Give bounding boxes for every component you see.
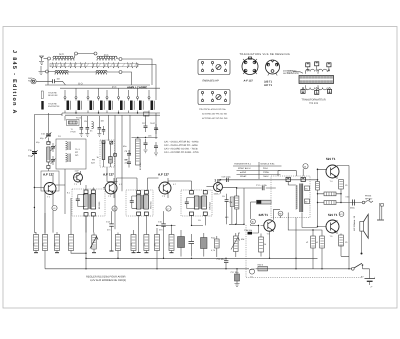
electrolytic C23 — [201, 233, 208, 257]
laminated core bar — [299, 76, 334, 84]
svg-text:TRANSISTOR S.J: TRANSISTOR S.J — [234, 163, 251, 166]
ground row2 — [39, 66, 44, 74]
small trimmer between keys — [144, 112, 150, 116]
trimmer capacitor C1b — [28, 149, 38, 158]
resistor R3 — [33, 232, 39, 253]
battery 9V — [361, 269, 376, 289]
svg-text:G O: G O — [78, 83, 83, 86]
bottom bus wires of keyboard — [62, 113, 160, 115]
coil L5 — [92, 122, 94, 129]
IF B core — [200, 196, 201, 209]
transistor table — [233, 162, 282, 179]
junction dots — [75, 112, 76, 113]
secondary resistor Rb2 — [320, 230, 325, 269]
svg-text:POUR: POUR — [287, 72, 293, 75]
wires T1b to osc box — [86, 185, 93, 233]
svg-text:TRANSISTORS VUS DE DESSOUS: TRANSISTORS VUS DE DESSOUS — [240, 53, 291, 56]
wire x244 agc down — [243, 188, 245, 224]
resistor R7b — [130, 230, 136, 253]
svg-text:8k2: 8k2 — [54, 243, 57, 246]
transistor T1 AF127 — [34, 175, 56, 199]
base wire boxB to 327 — [206, 185, 213, 187]
terminal lug bottom 1 — [301, 89, 305, 93]
svg-text:TA12: TA12 — [150, 122, 156, 125]
svg-text:R1 1k: R1 1k — [76, 117, 82, 120]
svg-text:P O: P O — [112, 86, 116, 89]
capacitor C22 — [189, 234, 195, 257]
svg-text:1k5: 1k5 — [68, 243, 71, 246]
svg-text:T1+1: T1+1 — [75, 148, 81, 151]
wires box A down — [139, 215, 147, 252]
resistor box R1 (in small frame) — [67, 120, 80, 126]
resistor R5 — [54, 232, 60, 253]
svg-text:PO: PO — [92, 159, 95, 162]
switch S6 — [118, 88, 125, 113]
terminal small sq 3N — [305, 186, 310, 190]
terminal lug top 1 — [306, 63, 310, 67]
pin 4 — [201, 99, 203, 101]
wires transformer secondary to resistors — [288, 228, 322, 231]
svg-text:BF456A: BF456A — [209, 201, 212, 209]
trimmer left lower — [51, 156, 56, 165]
junction dots on agc — [220, 179, 221, 180]
resistor R8 — [143, 235, 149, 253]
junction dots on ground bus — [117, 258, 118, 259]
legend touche relevee — [41, 91, 58, 99]
driver transformer dashed box — [271, 176, 310, 230]
svg-text:BF4553: BF4553 — [98, 201, 101, 209]
resistor R31 horizontal — [318, 192, 342, 196]
capacitor C4 — [98, 123, 102, 134]
svg-text:C17 + 470u: C17 + 470u — [256, 184, 268, 187]
terminal lug bottom 3 — [327, 89, 331, 93]
svg-text:CA3 - ACCORD GO 2N1 - 7013b: CA3 - ACCORD GO 2N1 - 7013b — [164, 148, 199, 151]
coupling capacitor C1B 94p — [244, 229, 253, 235]
pinout AF127 — [242, 57, 258, 75]
osc coil 1 — [84, 194, 89, 209]
voltage circle 45 — [303, 164, 308, 176]
svg-text:A.F 127: A.F 127 — [43, 173, 54, 177]
mixer coil — [102, 142, 105, 160]
mixer coil dashed box — [100, 140, 117, 167]
IF B primary coil — [194, 196, 199, 209]
svg-text:GO: GO — [75, 154, 79, 157]
jack plug — [377, 203, 384, 220]
IF A core — [142, 195, 143, 209]
wires down from keyboard — [65, 115, 130, 229]
svg-text:PRISE: PRISE — [365, 195, 372, 198]
resistor R12 — [259, 234, 264, 257]
supply feed wires — [278, 171, 297, 176]
pushbutton switch bank S1..S9 — [64, 88, 155, 113]
switch S3 — [87, 90, 94, 113]
keyway — [216, 64, 221, 69]
resistor R11 4.7k — [211, 236, 219, 257]
svg-text:3,2V AUX BORNES DE R30(3): 3,2V AUX BORNES DE R30(3) — [90, 279, 126, 282]
connector J6 — [119, 71, 122, 74]
pin 1 — [201, 91, 203, 93]
coil L3 — [55, 72, 68, 74]
earphone jack on bus — [249, 269, 255, 279]
voltage circle 1,6 — [52, 199, 57, 233]
tall IF coil BO1 — [136, 139, 141, 165]
ground — [97, 134, 101, 137]
electrolytic C21 — [178, 230, 185, 257]
interstage wire T3-boxB — [168, 181, 192, 191]
svg-text:C15 50u: C15 50u — [217, 258, 226, 261]
bias resistor R33 on rail — [316, 182, 320, 191]
capacitor C17 470u — [256, 184, 268, 190]
wire y188 — [237, 187, 276, 189]
on-off switch — [351, 263, 369, 270]
svg-text:ACCORD ART GO 241 246: ACCORD ART GO 241 246 — [202, 117, 228, 120]
embases HP connector box 1 — [198, 60, 230, 75]
transistor T3 AF127 — [158, 178, 171, 198]
resistor R30 horizontal — [258, 263, 268, 271]
T2 emitter capacitor C13 47n — [106, 211, 114, 251]
pin 4 — [201, 69, 203, 71]
svg-text:4k7: 4k7 — [115, 243, 118, 246]
junction dots — [137, 137, 138, 138]
wire left drop — [34, 113, 62, 233]
mixer side square — [114, 154, 117, 157]
detector resistor R16 — [230, 197, 234, 207]
centre tap wire — [295, 218, 297, 269]
HP jack — [362, 199, 373, 204]
svg-text:CA1 - OSCILLATEUR BC - 92#3b: CA1 - OSCILLATEUR BC - 92#3b — [164, 141, 199, 144]
agc wire y179.8 — [217, 179, 318, 181]
top bus wires — [45, 85, 160, 88]
svg-text:7A8 K: 7A8 K — [263, 175, 269, 178]
junction dots on supply bus — [225, 268, 226, 269]
osc cap — [76, 199, 80, 201]
capacitor C43 — [346, 196, 356, 210]
resistor R7 — [115, 233, 121, 259]
volume potentiometer P1 — [231, 233, 240, 257]
osc coil column — [47, 142, 50, 172]
transistor 327 detector — [214, 180, 237, 194]
svg-text:R2xB2: R2xB2 — [240, 175, 247, 178]
voltage circle 1,6 — [112, 206, 117, 211]
ground — [85, 134, 89, 137]
pin 1 — [201, 61, 203, 63]
svg-text:A-F 127: A-F 127 — [244, 80, 254, 83]
ground — [144, 150, 148, 153]
svg-text:POINT BLEU: POINT BLEU — [238, 167, 251, 170]
svg-text:120: 120 — [130, 243, 133, 246]
resistor R10 — [168, 225, 174, 252]
svg-text:R30 3: R30 3 — [258, 263, 264, 266]
voltage circle 1,7 — [166, 206, 171, 211]
IF B terminal squares — [190, 191, 194, 194]
resistor R9 — [154, 228, 160, 269]
svg-text:BOB117: BOB117 — [139, 161, 142, 170]
switch S5 — [106, 90, 113, 113]
wire — [74, 55, 75, 59]
secondary stubs — [288, 182, 302, 231]
wire — [49, 71, 97, 74]
voltage circle 3b — [251, 219, 256, 224]
svg-text:A.F 127: A.F 127 — [158, 173, 169, 177]
capacitor C7 — [154, 124, 158, 134]
capacitor C11 — [144, 139, 148, 149]
svg-text:3 27: 3 27 — [215, 178, 221, 182]
oscillator coil dashed box — [72, 189, 105, 216]
svg-text:521 T1: 521 T1 — [326, 157, 336, 161]
wire — [78, 53, 95, 55]
terminal sq 1 — [286, 177, 290, 181]
base rail x317.5 — [317, 169, 319, 226]
transistor T1b oscillator — [74, 171, 83, 185]
svg-text:325 T1: 325 T1 — [264, 81, 273, 84]
capacitor C5 — [102, 126, 105, 135]
svg-text:C17 90u: C17 90u — [231, 271, 240, 274]
capacitor C6 — [142, 122, 148, 132]
svg-text:TRANSFORMATEUR: TRANSFORMATEUR — [302, 98, 326, 101]
resistor R4 — [42, 235, 48, 269]
transformer legend — [287, 62, 334, 105]
svg-text:ACCORD AAF PO 221 GB: ACCORD AAF PO 221 GB — [202, 113, 227, 116]
IF transformer box B — [181, 190, 212, 216]
capacitor C15 50u — [217, 258, 229, 269]
transistor T5 output lower — [326, 220, 339, 234]
secondary resistor Ra — [311, 230, 316, 269]
connector J2 — [75, 52, 78, 55]
coil L4 — [96, 72, 106, 74]
terminal lug top 3 — [327, 63, 331, 67]
oscillator module box — [56, 139, 86, 169]
embases connector box 2 — [198, 90, 230, 105]
pin 3 — [224, 61, 226, 63]
IF B secondary coil — [202, 196, 207, 209]
wire to right then down — [122, 59, 152, 85]
interstage wire T2-boxA — [117, 178, 159, 190]
mixer resistor — [109, 157, 113, 163]
wire — [55, 169, 65, 214]
transistor T2 AF127 — [103, 178, 117, 198]
IF A secondary coil — [144, 195, 149, 209]
wire — [116, 58, 119, 61]
svg-text:3N: 3N — [305, 188, 308, 191]
resistor R6 — [68, 198, 86, 253]
coil L2 PO — [97, 58, 115, 60]
svg-text:CA4 - ACCORD PO 3A5M - 3/7#b: CA4 - ACCORD PO 3A5M - 3/7#b — [164, 151, 199, 154]
wire joins — [64, 84, 66, 86]
terminal sq 2 — [301, 177, 305, 181]
transistor T4 output upper — [326, 165, 339, 179]
thermistor R29 — [251, 200, 272, 204]
svg-text:CA2 - OSCILLATEUR PO - 8/95c: CA2 - OSCILLATEUR PO - 8/95c — [164, 144, 199, 147]
antenna jack — [31, 79, 36, 84]
svg-text:FF18: FF18 — [71, 131, 77, 134]
svg-text:145A.I: 145A.I — [214, 192, 220, 195]
IF transformer box A — [126, 190, 153, 216]
svg-text:521 T1: 521 T1 — [328, 213, 338, 217]
driver base network — [239, 202, 259, 236]
shield box around T1 — [41, 171, 59, 191]
ground bus y=256.5 — [86, 216, 318, 269]
switch S1 — [64, 90, 71, 113]
pin 6 — [224, 99, 226, 101]
pin 6 — [224, 69, 226, 71]
wire T1 emitter down — [45, 191, 46, 233]
switch S4 — [98, 88, 105, 113]
switch S7 — [128, 90, 135, 113]
svg-text:RELEVEE: RELEVEE — [48, 94, 58, 97]
detector out wire y224.3 — [227, 207, 244, 225]
ground — [79, 134, 83, 137]
svg-text:C2b OSCILLATEUR GO 78a: C2b OSCILLATEUR GO 78a — [199, 108, 226, 111]
pin 3 — [224, 91, 226, 93]
misc value labels — [36, 117, 348, 247]
capacitor C3 — [86, 123, 90, 134]
keyway — [216, 94, 221, 99]
svg-text:39k: 39k — [42, 243, 45, 246]
T4 emitter resistor — [339, 180, 344, 203]
mixer trim square — [110, 141, 113, 144]
pin 5 — [211, 99, 213, 101]
junction dot left rail — [34, 207, 35, 208]
svg-text:EMBASES HP: EMBASES HP — [203, 80, 220, 83]
IF A cap — [130, 201, 134, 203]
svg-text:au2N3: au2N3 — [240, 171, 247, 174]
dashed link earphone jack — [245, 225, 247, 278]
transistor T325 driver — [261, 219, 276, 232]
svg-text:AMPLI.CADRE: AMPLI.CADRE — [127, 86, 147, 90]
osc coil 2 — [91, 194, 96, 209]
switch S9 — [148, 90, 155, 113]
resistor R2b vertical — [229, 188, 239, 224]
wires box B down — [192, 215, 206, 225]
capacitor C8 — [125, 150, 132, 159]
svg-text:56k: 56k — [154, 243, 157, 246]
mixer top square — [102, 141, 105, 144]
electrolytic C17 90u — [231, 269, 240, 287]
speaker HP — [360, 214, 368, 254]
supply bus y=268.8 — [45, 213, 352, 269]
connector J4 — [119, 58, 122, 61]
ground (antenna top-left) — [39, 56, 44, 64]
capacitor C12 — [154, 142, 158, 152]
pinout 325T1 — [266, 60, 280, 76]
dashed bus to battery — [246, 277, 362, 279]
coil L1 GO — [53, 58, 74, 60]
connector J3 — [94, 52, 97, 55]
voltage circle 5,3 — [339, 212, 344, 217]
IF B cap — [185, 202, 189, 204]
pin 2 — [211, 91, 213, 93]
svg-text:G O: G O — [59, 53, 64, 56]
driver collector wire — [269, 231, 271, 258]
svg-text:HP EXT: HP EXT — [365, 198, 373, 201]
connector J1 — [48, 57, 51, 60]
capacitor C9 — [125, 159, 132, 168]
trimmer capacitor C10 41p — [40, 132, 51, 140]
svg-text:2k2: 2k2 — [143, 243, 146, 246]
T3 emitter capacitor C15 47n — [158, 211, 166, 258]
svg-text:10k: 10k — [168, 243, 171, 246]
svg-text:PO: PO — [75, 151, 78, 154]
svg-text:J 845 - Edition A: J 845 - Edition A — [11, 50, 17, 115]
legend touche enfoncee — [41, 101, 60, 110]
bottom winding coils — [306, 85, 315, 90]
svg-text:ENFONCEE: ENFONCEE — [48, 105, 60, 108]
svg-text:A.F 127: A.F 127 — [103, 173, 114, 177]
svg-text:2°: 2° — [371, 286, 373, 289]
pin 5 — [211, 69, 213, 71]
capacitor C2 — [80, 123, 84, 134]
capacitor C19 70u — [222, 176, 232, 183]
osc terminal squares — [84, 190, 88, 193]
svg-text:TR4753: TR4753 — [150, 201, 153, 209]
ferrite rod antenna — [50, 63, 138, 68]
terminal small sq 60 — [305, 199, 310, 203]
resistor R32 horizontal — [318, 201, 342, 205]
osc coil b — [66, 154, 71, 163]
svg-text:327 T1: 327 T1 — [264, 84, 273, 87]
osc coil a — [66, 142, 71, 151]
transformer core — [299, 184, 303, 213]
terminal lug top 2 — [315, 62, 319, 66]
IF A terminal squares — [137, 191, 141, 194]
switch S8 — [137, 88, 144, 113]
svg-text:C1B 94p: C1B 94p — [244, 229, 253, 232]
driver emitter wire — [274, 209, 281, 219]
svg-text:MODELE R.9a: MODELE R.9a — [261, 163, 276, 166]
switch S2 — [75, 88, 82, 113]
svg-text:724 415: 724 415 — [309, 102, 319, 105]
terminal lug bottom 2 — [315, 90, 319, 94]
trimmer resistor RV1 — [90, 233, 98, 253]
speaker output wire — [341, 202, 362, 204]
T5 emitter resistor — [339, 234, 349, 257]
top winding coils — [308, 66, 329, 69]
wires from keyboard right block — [146, 113, 157, 139]
wire y225 segment — [156, 224, 176, 226]
svg-text:C2GB: C2GB — [263, 171, 269, 174]
wire — [44, 58, 48, 60]
detector cap C18 — [222, 194, 229, 209]
svg-text:220: 220 — [33, 243, 36, 246]
osc core — [89, 194, 90, 209]
ground — [154, 153, 158, 156]
svg-text:325 T1: 325 T1 — [259, 213, 269, 217]
svg-text:H.P 105mm - 25: H.P 105mm - 25 — [353, 215, 356, 231]
primary coil — [296, 185, 298, 209]
connector J5 — [46, 70, 49, 73]
voltage circle Rb — [278, 211, 283, 218]
T4 collector wire to switch line — [337, 166, 349, 269]
IF A primary coil — [136, 195, 141, 209]
trimmer left of box — [51, 143, 56, 152]
pin 2 — [211, 61, 213, 63]
